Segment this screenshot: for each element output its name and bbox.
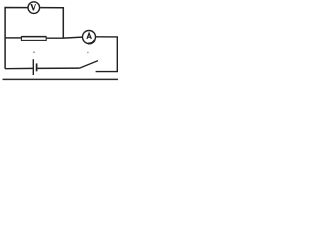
- ammeter U2 circle: [83, 31, 96, 44]
- resistor R1: [21, 37, 46, 41]
- resistor R1 heavy top edge: [21, 36, 46, 38]
- wire: battery to switch blade hinge: [38, 67, 80, 69]
- wire: bottom rail from left corner to battery: [5, 67, 33, 69]
- ammeter label A: [87, 33, 91, 39]
- wire: voltmeter right to top-right corner, down to junction: [40, 8, 63, 38]
- wire: resistor to junction to ammeter: [47, 37, 83, 38]
- speck above battery: [33, 52, 34, 53]
- wire: left rail with top-left corner, to voltmeter: [5, 8, 28, 69]
- battery B1 short plate: [36, 63, 38, 71]
- wire: ammeter to right rail down to switch contact: [96, 37, 118, 73]
- bottom horizontal rule: [3, 78, 119, 80]
- voltmeter label V: [30, 4, 36, 11]
- switch S1 open blade: [80, 61, 98, 69]
- ammeter bottom-right heavy arc: [88, 40, 95, 43]
- voltmeter U1 circle: [28, 2, 40, 14]
- wire: middle branch from left rail to resistor: [5, 37, 21, 39]
- speck below ammeter: [87, 52, 88, 53]
- battery B1 long plate: [32, 59, 34, 75]
